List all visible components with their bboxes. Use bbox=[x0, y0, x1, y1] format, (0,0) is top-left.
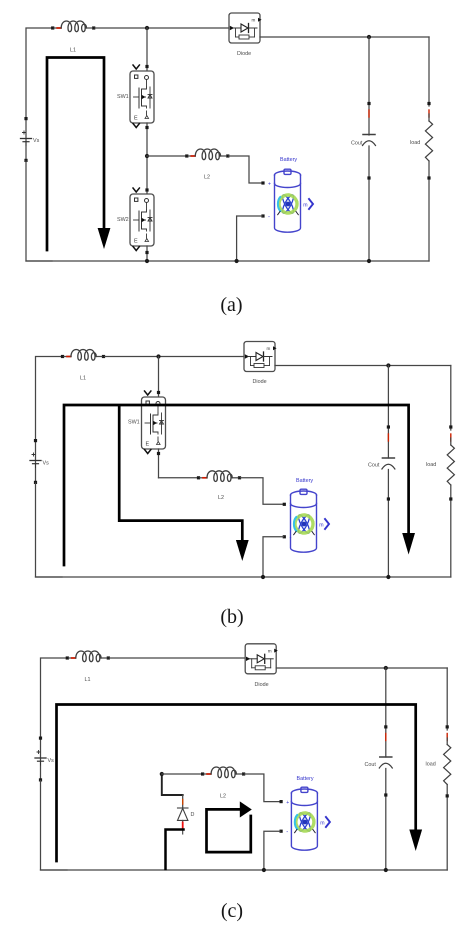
svg-text:(b): (b) bbox=[220, 606, 243, 628]
wire: bottom rail bbox=[41, 869, 448, 871]
svg-text:L1: L1 bbox=[80, 376, 86, 382]
svg-text:Battery: Battery bbox=[297, 776, 314, 782]
port dot SW1 top bbox=[145, 65, 148, 68]
wire: into load bbox=[428, 114, 430, 121]
port dot battery minus bbox=[283, 535, 286, 538]
port dot load bottom bbox=[449, 497, 452, 500]
port dot load top bbox=[449, 425, 452, 428]
svg-text:+: + bbox=[286, 800, 289, 806]
svg-text:L2: L2 bbox=[204, 175, 210, 181]
capacitor Cout bbox=[363, 135, 376, 146]
node top of SW branch bbox=[156, 354, 160, 358]
wire: diode output rail bbox=[260, 36, 429, 38]
red mark Cout bbox=[368, 110, 370, 117]
port dot Cout bottom bbox=[387, 497, 390, 500]
port dot Cout bottom bbox=[367, 176, 370, 179]
wire: left rail lower bbox=[26, 161, 52, 261]
wire: left rail lower bbox=[36, 483, 63, 577]
port dot Cout top bbox=[367, 102, 370, 105]
port dot SW1 bottom bbox=[145, 126, 148, 129]
wire: Cout branch lower bbox=[385, 769, 387, 871]
svg-text:(c): (c) bbox=[221, 900, 243, 922]
inductor L2 bbox=[185, 149, 229, 160]
inductor L1 bbox=[61, 350, 105, 361]
current flow elbow at D to bottom rail bbox=[166, 830, 184, 870]
wire: below load to bottom rail bbox=[450, 485, 452, 577]
svg-text:Vs: Vs bbox=[48, 758, 55, 764]
port dot SW2 bottom bbox=[145, 251, 148, 254]
port dot SW1 top bbox=[157, 391, 160, 394]
wire: SW2 to bottom rail bbox=[146, 246, 148, 261]
wire: Cout branch upper bbox=[385, 668, 387, 757]
svg-text:load: load bbox=[426, 762, 436, 768]
svg-text:Diode: Diode bbox=[253, 379, 267, 385]
wire: L2 to battery plus bbox=[241, 478, 284, 505]
svg-text:L1: L1 bbox=[70, 48, 76, 54]
svg-text:+: + bbox=[268, 182, 271, 188]
wire: into load bbox=[450, 438, 452, 445]
port dot battery plus bbox=[283, 503, 286, 506]
svg-text:SW1: SW1 bbox=[117, 94, 129, 100]
wire: top rail to diode bbox=[109, 657, 244, 659]
svg-text:Battery: Battery bbox=[280, 157, 297, 163]
switch SW1 bbox=[142, 391, 166, 454]
wire: top rail left segment bbox=[26, 28, 52, 118]
port dot Cout top bbox=[384, 725, 387, 728]
svg-text:-: - bbox=[286, 830, 288, 836]
svg-text:load: load bbox=[410, 140, 420, 146]
current flow path 2 (b) inner branch bbox=[119, 406, 242, 541]
port dot load top bbox=[427, 102, 430, 105]
wire: to L2 bbox=[159, 477, 199, 479]
svg-text:L2: L2 bbox=[218, 495, 224, 501]
inductor L2 bbox=[197, 471, 241, 482]
wire: SW branch from top rail bbox=[158, 357, 160, 398]
red mark Cout bbox=[385, 734, 387, 741]
wire: top rail left segment bbox=[41, 658, 67, 739]
svg-text:Battery: Battery bbox=[296, 478, 313, 484]
wire: L2 to battery plus bbox=[229, 156, 262, 183]
wire: left rail lower bbox=[41, 781, 68, 871]
switch SW1 bbox=[130, 65, 154, 128]
red mark load bbox=[446, 734, 448, 741]
wire: SW1 down to L2 level bbox=[158, 449, 160, 478]
wire: Cout branch upper bbox=[368, 37, 370, 135]
resistor load bbox=[447, 445, 454, 485]
wire: battery minus to bottom rail bbox=[237, 216, 262, 261]
wire: right rail upper bbox=[450, 366, 452, 431]
current flow path arrow (a) bbox=[47, 58, 104, 251]
wire: right rail upper bbox=[446, 668, 448, 730]
node Cout bottom rail bbox=[367, 259, 371, 263]
svg-text:Diode: Diode bbox=[255, 682, 269, 688]
resistor load bbox=[444, 745, 451, 785]
node Cout top bbox=[386, 363, 390, 367]
node Cout top bbox=[384, 666, 388, 670]
node battery minus bottom rail bbox=[262, 868, 266, 872]
diode block U1 bbox=[229, 13, 262, 43]
wire: mid node to L2 bbox=[147, 155, 187, 157]
wire: diode output rail bbox=[276, 667, 447, 669]
current flow path 1 (b) outer loop bbox=[64, 405, 409, 565]
wire: top rail to diode bbox=[105, 356, 244, 358]
svg-text:Diode: Diode bbox=[237, 51, 251, 57]
red mark D top bbox=[182, 800, 184, 805]
port dot load top bbox=[446, 725, 449, 728]
svg-text:L1: L1 bbox=[85, 677, 91, 683]
port dot SW1 bottom bbox=[157, 452, 160, 455]
wire: below load to bottom rail bbox=[446, 785, 448, 871]
diode D bbox=[178, 808, 189, 834]
wire: diode output rail bbox=[275, 365, 451, 367]
diode block U1 bbox=[245, 644, 278, 674]
svg-text:SW1: SW1 bbox=[128, 420, 140, 426]
red mark load bbox=[428, 110, 430, 117]
wire: bottom rail bbox=[26, 260, 429, 262]
wire: Cout branch upper bbox=[387, 366, 389, 459]
node Cout bottom rail bbox=[386, 575, 390, 579]
wire: L2 to battery plus bbox=[244, 774, 280, 802]
wire: below load to bottom rail bbox=[428, 161, 430, 261]
node L2 left bbox=[160, 772, 164, 776]
Vs source C bbox=[35, 737, 46, 782]
wire: SW branch from top rail bbox=[146, 28, 148, 71]
node Cout top bbox=[367, 35, 371, 39]
svg-text:(a): (a) bbox=[220, 294, 242, 316]
Vs source B bbox=[30, 439, 41, 484]
red mark Cout bbox=[387, 434, 389, 441]
current flow path (c) outer loop bbox=[57, 705, 416, 862]
battery B1 bbox=[291, 787, 330, 850]
svg-text:Cout: Cout bbox=[365, 762, 377, 768]
svg-text:Cout: Cout bbox=[351, 141, 363, 147]
port dot load bottom bbox=[427, 176, 430, 179]
svg-text:Cout: Cout bbox=[368, 463, 380, 469]
Vs source A bbox=[21, 117, 32, 162]
node mid between SW1 SW2 bbox=[145, 154, 149, 158]
red mark D bottom bbox=[182, 823, 184, 828]
diode block U1 bbox=[244, 342, 277, 372]
wire: top rail to diode bbox=[95, 27, 228, 29]
svg-text:Vs: Vs bbox=[33, 138, 40, 144]
inductor L2 bbox=[201, 767, 245, 778]
node battery minus bottom rail bbox=[261, 575, 265, 579]
wire: into load bbox=[446, 738, 448, 745]
port dot battery minus bbox=[280, 830, 283, 833]
wire: bottom rail bbox=[36, 576, 451, 578]
inductor L1 bbox=[66, 651, 110, 662]
red mark load bbox=[450, 434, 452, 441]
port dot Cout bottom bbox=[384, 793, 387, 796]
wire: Cout branch lower bbox=[368, 146, 370, 261]
svg-text:-: - bbox=[290, 535, 292, 541]
wire: L2 feed elbow from node bbox=[162, 774, 183, 795]
wire: Cout branch lower bbox=[387, 470, 389, 578]
port dot battery plus bbox=[261, 181, 264, 184]
svg-text:-: - bbox=[268, 215, 270, 221]
node SW2 bottom rail bbox=[145, 259, 149, 263]
wire: SW1 to mid node bbox=[146, 123, 148, 194]
wire: top rail left segment bbox=[36, 357, 62, 441]
node battery minus bottom rail bbox=[235, 259, 239, 263]
svg-text:D: D bbox=[191, 812, 195, 818]
port dot battery plus bbox=[280, 800, 283, 803]
port dot battery minus bbox=[261, 214, 264, 217]
battery B1 bbox=[275, 169, 314, 232]
battery B1 bbox=[291, 489, 330, 552]
svg-text:Vs: Vs bbox=[43, 461, 50, 467]
wire: node to L2 bbox=[162, 773, 203, 775]
node Cout bottom rail bbox=[384, 868, 388, 872]
inductor L1 bbox=[51, 21, 95, 32]
port dot load bottom bbox=[446, 794, 449, 797]
wire: battery minus to bottom rail bbox=[264, 831, 280, 870]
port dot SW2 top bbox=[145, 188, 148, 191]
wire: battery minus to bottom rail bbox=[263, 537, 283, 577]
node top of SW branch bbox=[145, 26, 149, 30]
capacitor Cout bbox=[379, 757, 392, 768]
wire: right rail upper bbox=[428, 37, 430, 106]
circulating current loop arrow bbox=[207, 809, 251, 852]
wire: diode D anode lead bbox=[182, 795, 184, 808]
capacitor Cout bbox=[382, 458, 395, 469]
resistor load bbox=[425, 121, 432, 161]
switch SW2 bbox=[130, 188, 154, 251]
svg-text:load: load bbox=[426, 462, 436, 468]
svg-text:L2: L2 bbox=[220, 794, 226, 800]
port dot Cout top bbox=[387, 425, 390, 428]
svg-text:SW2: SW2 bbox=[117, 217, 129, 223]
